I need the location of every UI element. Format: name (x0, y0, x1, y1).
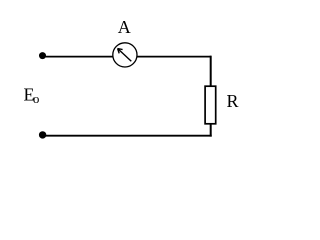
svg-text:A: A (118, 17, 131, 37)
svg-text:R: R (227, 91, 239, 111)
node Eo positive terminal (top) (39, 52, 46, 59)
svg-text:Eo: Eo (24, 85, 40, 107)
wire top-right: ammeter to corner (137, 56, 212, 58)
wire right vertical lower: resistor to corner (210, 123, 212, 137)
resistor R body (205, 86, 216, 124)
wire top-left: terminal to ammeter (43, 56, 114, 58)
ammeter U1 needle (118, 49, 132, 62)
ammeter U1 body (113, 43, 137, 67)
wire bottom: corner to terminal (43, 135, 212, 137)
wire right vertical upper: corner to resistor (210, 56, 212, 86)
node Eo negative terminal (bottom) (39, 131, 46, 138)
